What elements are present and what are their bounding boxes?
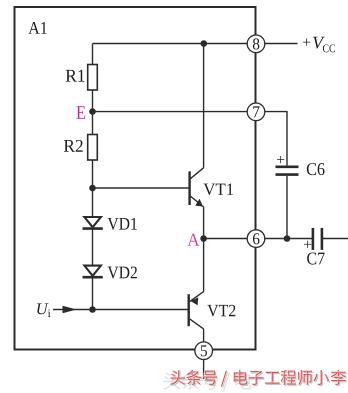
wire base node to VT1 base xyxy=(93,187,190,189)
label R2 xyxy=(64,140,75,152)
box A1 left edge xyxy=(14,6,16,351)
C6 plus sign xyxy=(277,156,284,163)
Ui arrowhead xyxy=(63,306,77,314)
wire C7 output xyxy=(323,238,348,240)
capacitor C6 xyxy=(276,166,299,169)
box A1 top edge xyxy=(14,6,257,8)
junction dot Ui / VD2 xyxy=(89,306,96,313)
label VT1 xyxy=(203,184,215,196)
label VD2 xyxy=(108,267,119,279)
wire VD2 to Ui node xyxy=(92,277,94,309)
pin 5 xyxy=(195,342,213,360)
wire below pin 5 xyxy=(203,359,205,379)
junction dot top rail / VT1 collector xyxy=(201,40,208,47)
wire node A to pin 6 xyxy=(204,238,248,240)
label C6 xyxy=(307,163,316,175)
wire E to R2 xyxy=(92,112,94,135)
transistor VT2 emitter diagonal xyxy=(190,292,204,302)
watermark ghost 头条号 xyxy=(163,372,180,390)
wire pin 7 to C6 xyxy=(264,112,287,166)
watermark red 头条号/电子工程师小李 xyxy=(170,370,185,385)
box A1 bottom edge segments xyxy=(14,349,257,351)
label R1 xyxy=(66,70,77,82)
node E dot xyxy=(89,108,96,115)
wire node E to pin 7 xyxy=(93,111,248,113)
pin 8 xyxy=(247,35,265,53)
VT2 emitter arrowhead xyxy=(191,297,199,305)
pin 6 xyxy=(247,230,265,248)
resistor R1 xyxy=(88,65,98,91)
wire C6 to junction xyxy=(286,176,288,239)
wire VT2 collector to pin 5 xyxy=(203,329,205,342)
node A dot xyxy=(200,235,207,242)
transistor VT1 collector diagonal xyxy=(190,168,203,179)
wire pin 6 to C7 xyxy=(264,238,312,240)
watermark shadow 头条号/电子工程师小李 xyxy=(172,371,187,386)
capacitor C7 xyxy=(312,228,315,250)
wire R2 to base node xyxy=(92,160,94,188)
pin 7 xyxy=(247,103,265,121)
VT1 emitter arrowhead xyxy=(195,199,203,207)
node label E xyxy=(76,106,85,118)
junction dot R2 / VT1 base xyxy=(89,185,96,192)
diode VD1 xyxy=(84,217,101,227)
wire R1 top stub xyxy=(92,44,94,65)
box A1 right edge segments xyxy=(255,6,257,351)
wire VD1 to VD2 xyxy=(92,229,94,266)
label VD1 xyxy=(108,218,119,230)
wire base node down to VD1 xyxy=(92,188,94,217)
transistor VT1 emitter diagonal xyxy=(190,196,203,207)
label A1 xyxy=(28,22,39,34)
resistor R2 xyxy=(88,135,98,161)
transistor VT1 collector wire xyxy=(203,44,205,168)
wire Ui input to VT2 base xyxy=(53,309,189,311)
transistor VT2 base bar xyxy=(187,294,189,326)
wire top rail to pin 8 xyxy=(93,43,248,45)
node label A xyxy=(187,234,199,246)
label +Vcc xyxy=(303,39,310,46)
label Ui xyxy=(37,303,48,314)
transistor VT1 base bar xyxy=(188,171,190,205)
C7 plus sign xyxy=(304,241,311,248)
label VT2 xyxy=(207,305,218,317)
junction dot C6 / pin6 wire xyxy=(284,235,291,242)
diode VD2 xyxy=(84,266,101,276)
wire VT1 emitter to node A to VT2 emitter xyxy=(203,207,205,292)
transistor VT2 collector diagonal xyxy=(190,319,204,329)
wire +Vcc stub xyxy=(264,43,297,45)
wire R1 to node E xyxy=(92,90,94,112)
label C7 xyxy=(307,252,316,264)
